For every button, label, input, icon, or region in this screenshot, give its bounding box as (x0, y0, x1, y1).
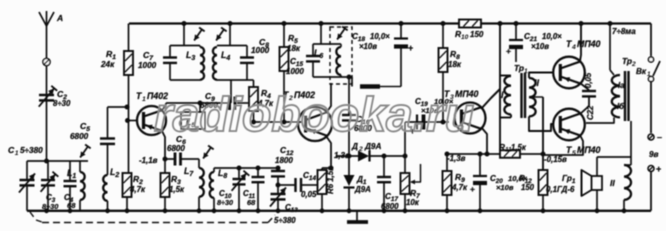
svg-text:Iа: Iа (618, 81, 625, 90)
svg-text:10,0×: 10,0× (542, 32, 562, 41)
svg-text:radiobooka.ru: radiobooka.ru (154, 89, 474, 142)
svg-text:150: 150 (521, 183, 535, 192)
svg-text:0,05: 0,05 (301, 190, 317, 199)
svg-text:×10в: ×10в (359, 42, 377, 51)
svg-text:+: + (506, 46, 511, 56)
svg-text:10к: 10к (406, 198, 420, 207)
svg-text:-1,3в: -1,3в (447, 154, 466, 163)
svg-text:0,05: 0,05 (584, 72, 593, 88)
svg-text:5÷380: 5÷380 (274, 216, 296, 225)
svg-text:×10в: ×10в (531, 42, 549, 51)
svg-text:МП40: МП40 (577, 145, 601, 155)
svg-text:150: 150 (470, 30, 484, 39)
svg-text:1,5к: 1,5к (169, 185, 185, 194)
svg-text:24к: 24к (100, 60, 115, 69)
svg-text:4,7к: 4,7к (451, 183, 468, 192)
svg-text:Д9А: Д9А (364, 142, 381, 151)
svg-text:1000: 1000 (138, 61, 157, 70)
svg-text:–: – (657, 132, 662, 142)
svg-text:1800: 1800 (275, 156, 293, 165)
svg-text:Вк: Вк (636, 67, 647, 76)
svg-text:1: 1 (524, 68, 528, 75)
svg-text:Д: Д (351, 142, 358, 151)
svg-text:+: + (408, 43, 413, 53)
svg-text:7÷8ма: 7÷8ма (612, 27, 636, 36)
svg-text:18к: 18к (287, 44, 301, 53)
svg-text:68: 68 (67, 201, 76, 210)
svg-text:-0,15в: -0,15в (544, 155, 567, 164)
svg-text:8÷30: 8÷30 (53, 99, 71, 108)
svg-text:+: + (656, 164, 661, 174)
svg-text:4: 4 (571, 44, 576, 51)
svg-text:9в: 9в (649, 150, 659, 159)
svg-text:II: II (534, 78, 540, 88)
svg-text:1: 1 (15, 150, 19, 157)
svg-text:-1,1в: -1,1в (139, 156, 158, 165)
svg-text:18к: 18к (448, 60, 462, 69)
svg-text:2: 2 (358, 146, 363, 153)
svg-text:А: А (56, 13, 63, 23)
svg-text:6800: 6800 (70, 132, 89, 141)
svg-text:×10в: ×10в (496, 183, 514, 192)
svg-text:10: 10 (461, 34, 469, 41)
svg-text:5÷380: 5÷380 (20, 146, 43, 155)
svg-text:0,1ГД-6: 0,1ГД-6 (546, 185, 575, 194)
svg-text:8÷30: 8÷30 (217, 198, 233, 207)
svg-text:Д9А: Д9А (354, 185, 371, 194)
svg-text:6800: 6800 (167, 144, 185, 153)
svg-text:10,0×: 10,0× (370, 32, 390, 41)
svg-text:1: 1 (142, 96, 146, 103)
svg-text:Тр: Тр (514, 63, 524, 73)
svg-text:68: 68 (247, 198, 256, 207)
svg-text:Тр: Тр (622, 56, 632, 66)
svg-text:4,7к: 4,7к (129, 185, 146, 194)
svg-text:1: 1 (647, 71, 651, 78)
svg-text:Iб: Iб (617, 102, 624, 111)
svg-text:1000: 1000 (251, 46, 270, 55)
svg-text:С22: С22 (586, 105, 595, 120)
svg-text:1,5к: 1,5к (511, 143, 527, 152)
svg-text:+: + (470, 184, 475, 194)
svg-text:II: II (610, 178, 615, 188)
